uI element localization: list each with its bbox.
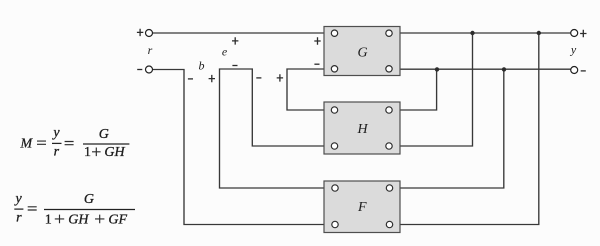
svg-text:y: y [570, 43, 577, 57]
svg-text:1: 1 [45, 212, 52, 227]
svg-text:1: 1 [84, 145, 91, 160]
svg-text:e: e [222, 45, 228, 59]
svg-text:F: F [357, 200, 367, 215]
svg-text:r: r [148, 43, 153, 57]
svg-text:GH: GH [104, 145, 125, 160]
svg-text:G: G [84, 192, 94, 207]
svg-text:GF: GF [108, 212, 127, 227]
svg-text:y: y [13, 191, 22, 206]
svg-text:G: G [99, 127, 109, 142]
svg-text:r: r [54, 145, 60, 160]
svg-text:r: r [16, 211, 22, 226]
svg-text:y: y [51, 126, 60, 141]
svg-text:b: b [199, 59, 205, 73]
svg-text:GH: GH [68, 212, 89, 227]
svg-text:H: H [356, 122, 368, 137]
svg-text:M: M [20, 136, 34, 151]
svg-text:G: G [357, 46, 367, 61]
